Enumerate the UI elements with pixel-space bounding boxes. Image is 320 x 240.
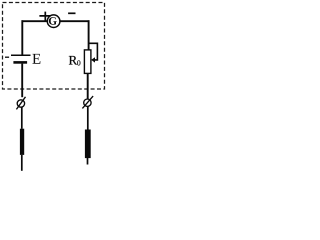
rheostat wiper branch wire (89, 43, 98, 60)
battery E positive plate (11, 54, 31, 56)
rheostat wiper arrowhead (91, 57, 95, 62)
wire right vertical upper (88, 20, 90, 50)
right terminal binding post (84, 99, 91, 106)
left electrode bar (20, 129, 24, 155)
label E (32, 54, 40, 64)
right terminal slash (82, 96, 93, 108)
left terminal slash (16, 97, 25, 110)
label G (49, 17, 57, 25)
wire below right electrode (87, 158, 89, 165)
minus polarity sign (68, 12, 75, 14)
wire below left electrode (21, 155, 23, 171)
wire left terminal to electrode (21, 107, 23, 129)
left terminal binding post (17, 100, 24, 107)
battery minus polarity dash (5, 56, 9, 58)
wire top-left horizontal (22, 20, 48, 22)
wire right terminal to electrode (87, 106, 89, 129)
dashed instrument box border (3, 3, 105, 90)
galvanometer G circle (47, 15, 60, 28)
right electrode bar (85, 130, 91, 159)
plus polarity sign (39, 12, 50, 21)
battery E negative plate (13, 61, 27, 64)
label R0 (69, 56, 77, 65)
wire left vertical upper (21, 20, 23, 54)
rheostat R0 box (84, 50, 91, 74)
wire right vertical below rheostat (87, 73, 89, 98)
wire top-right horizontal (60, 20, 90, 22)
wire left vertical below battery (21, 64, 23, 98)
